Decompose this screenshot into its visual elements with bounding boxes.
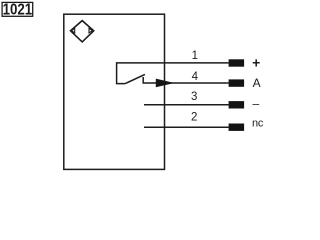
switch throw tick and wire 4 (output A) [143,77,228,83]
svg-text:–: – [252,97,259,111]
proximity sensor diamond symbol [71,21,94,42]
sensor body (outer rectangle) [64,14,165,169]
output arrowhead on wire 4 [156,79,175,88]
terminal 4 [229,79,245,86]
svg-text:1: 1 [192,50,198,62]
switch blade (NO contact) [125,74,145,83]
wire 1 (supply +) with switch drop and pivot stub [117,63,229,84]
wire 2 (nc) [144,126,229,128]
svg-text:nc: nc [252,117,264,129]
diamond right arrowhead [89,28,92,33]
wire 3 (supply -) [144,104,229,106]
terminal 1 [229,59,245,66]
terminal 2 [229,124,245,131]
figure number box 1021 [2,2,33,19]
svg-text:+: + [252,55,260,71]
svg-text:A: A [253,76,261,90]
svg-text:2: 2 [191,111,197,123]
diamond left arrowhead [72,28,75,33]
svg-text:3: 3 [191,91,197,103]
terminal 3 [229,101,245,108]
svg-text:4: 4 [192,71,199,83]
svg-text:1021: 1021 [3,2,33,19]
